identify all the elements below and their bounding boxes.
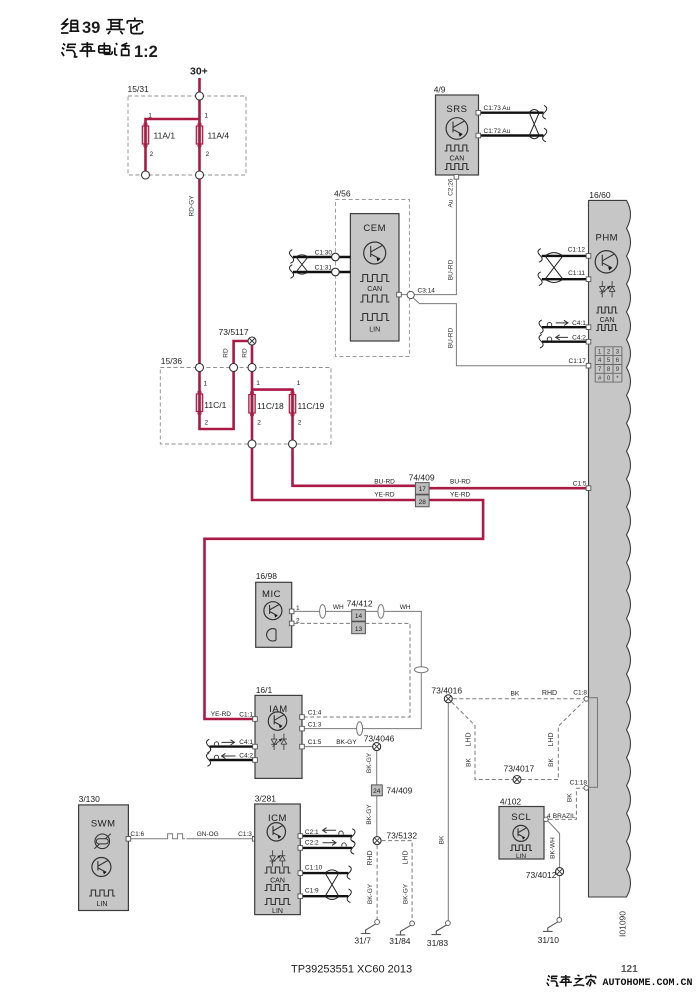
svg-text:YE-RD: YE-RD	[450, 491, 471, 498]
dashed wire RHD BK-GY to ground 31/7	[376, 845, 378, 920]
svg-text:2: 2	[296, 618, 300, 625]
PHM LIN wires C4:1 / C4:2	[542, 327, 589, 342]
svg-text:C1:8: C1:8	[573, 689, 587, 696]
splice 73/4017	[513, 776, 521, 784]
svg-text:2: 2	[206, 151, 210, 158]
svg-text:17: 17	[419, 486, 427, 493]
wire branch through fuse 11C/19 to connector 74/409 pin 17 (BU-RD)	[252, 390, 415, 486]
fuse box 15/31 (CEM fuse holder)	[128, 96, 246, 175]
wire BK-GY from IAM C1:5 to splice 73/4046	[304, 746, 376, 748]
svg-text:SRS: SRS	[446, 104, 467, 115]
svg-text:73/4046: 73/4046	[364, 733, 395, 743]
svg-text:2: 2	[205, 420, 209, 427]
svg-text:C2:2: C2:2	[305, 840, 319, 847]
svg-text:C4:2: C4:2	[239, 752, 253, 759]
PHM CAN wires C1:12 / C1:11	[542, 256, 589, 279]
svg-text:C1:10: C1:10	[305, 864, 323, 871]
dashed wire BK RHD from 73/4016 to PHM C1:8	[453, 698, 584, 700]
svg-text:LHD: LHD	[548, 732, 555, 746]
svg-text:LHD: LHD	[466, 732, 473, 746]
svg-text:WH: WH	[400, 604, 411, 611]
svg-text:39: 39	[82, 19, 100, 37]
svg-text:PHM: PHM	[595, 233, 618, 244]
svg-text:11C/1: 11C/1	[204, 400, 226, 410]
connector 74/409 pin 24	[371, 785, 382, 796]
svg-text:C4:1: C4:1	[239, 739, 253, 746]
svg-text:2: 2	[298, 420, 302, 427]
op-amp module IAM 16/1	[255, 695, 302, 778]
svg-text:CEM: CEM	[363, 223, 386, 234]
wire branch to fuse 11A/1	[146, 119, 200, 175]
svg-text:AUTOHOME.COM.CN: AUTOHOME.COM.CN	[603, 978, 693, 989]
connector circles 15/31	[196, 92, 204, 100]
ground 31/84	[396, 925, 411, 935]
fuse 11C/1	[196, 394, 202, 412]
svg-text:C4:1: C4:1	[572, 320, 586, 327]
ground 31/10	[543, 922, 558, 932]
title line 2: 汽车电话 1:2	[62, 42, 130, 57]
svg-text:LIN: LIN	[97, 901, 108, 908]
node C3:14 wires	[399, 294, 407, 296]
steering wheel module SWM 3/130	[79, 805, 129, 911]
node C3:14	[407, 291, 414, 298]
svg-text:16/98: 16/98	[256, 571, 278, 581]
svg-text:MIC: MIC	[262, 589, 281, 600]
op-amp module CEM	[350, 214, 399, 341]
svg-text:BK-GY: BK-GY	[403, 883, 410, 904]
svg-text:2: 2	[257, 420, 261, 427]
svg-text:31/7: 31/7	[354, 936, 371, 946]
SRS CAN bus wires C1:73 / C1:72	[481, 113, 544, 136]
svg-text:31/83: 31/83	[427, 938, 449, 948]
svg-text:30+: 30+	[190, 66, 208, 78]
svg-text:C1:31: C1:31	[315, 265, 333, 272]
svg-text:1: 1	[205, 113, 209, 120]
wire WH from 74/412 to IAM C1:3	[304, 611, 421, 728]
ICM wires C2:1 / C2:2	[300, 836, 352, 848]
svg-text:16/1: 16/1	[256, 685, 273, 695]
svg-text:C1:18: C1:18	[570, 780, 588, 787]
svg-text:11A/1: 11A/1	[154, 131, 176, 141]
svg-text:TP39253551 XC60 2013: TP39253551 XC60 2013	[291, 964, 412, 976]
splice 73/5132	[373, 837, 381, 845]
dashed shield wire from 74/412 pin13 to IAM C1:4	[304, 623, 410, 717]
connector 74/409 pins 17/28	[415, 483, 429, 495]
svg-text:SWM: SWM	[91, 819, 116, 830]
wire MIC pin1 (WH shielded) to 74/412 pin 14	[294, 610, 352, 612]
svg-text:WH: WH	[333, 604, 344, 611]
CEM outer dashed box 4/56	[335, 199, 409, 356]
svg-text:13: 13	[355, 626, 363, 633]
dashed wire LHD BK-GY to ground 31/84	[382, 841, 413, 921]
svg-text:15/36: 15/36	[161, 356, 183, 366]
microphone module MIC 16/98	[256, 582, 292, 647]
svg-text:YE-RD: YE-RD	[211, 711, 232, 718]
svg-text:15/31: 15/31	[128, 84, 150, 94]
svg-text:BK: BK	[466, 758, 473, 767]
wire from 73/4012 to ground 31/10	[559, 876, 561, 917]
SCL pin 4 BRAZIL dashed wire to PHM C1:18	[549, 788, 585, 819]
fuse 11A/4	[196, 126, 202, 144]
svg-text:74/409: 74/409	[386, 786, 412, 796]
svg-text:BK: BK	[548, 758, 555, 767]
svg-text:RHD: RHD	[367, 850, 374, 865]
ground 31/83	[432, 925, 447, 935]
fuse box 15/36	[160, 368, 331, 445]
svg-text:BU-RD: BU-RD	[374, 479, 395, 486]
svg-text:C1:72 Au: C1:72 Au	[484, 128, 511, 135]
svg-text:RD: RD	[242, 348, 249, 358]
wire BK from 73/4016 to ground 31/83	[447, 703, 449, 920]
svg-text:LIN: LIN	[369, 327, 380, 334]
svg-text:3/281: 3/281	[255, 793, 277, 803]
PHM internal link C1:8 to C1:18	[589, 698, 598, 788]
svg-text:2: 2	[150, 151, 154, 158]
svg-text:24: 24	[373, 788, 381, 795]
ICM suppressor diodes	[270, 850, 276, 866]
connector circles 15/36	[196, 364, 204, 372]
watermark 汽车之家 AUTOHOME.COM.CN	[547, 974, 596, 986]
svg-text:C2:1: C2:1	[305, 829, 319, 836]
svg-text:Au C2:26: Au C2:26	[447, 178, 454, 207]
svg-text:73/5132: 73/5132	[386, 830, 417, 840]
svg-text:31/10: 31/10	[538, 935, 560, 945]
fuse 11A/1	[142, 126, 148, 144]
svg-text:11C/18: 11C/18	[257, 401, 284, 411]
svg-text:1: 1	[296, 605, 300, 612]
svg-text:C1:1: C1:1	[239, 711, 253, 718]
svg-text:RD: RD	[223, 348, 230, 358]
wire from splice 73/5117 through fuse 11C/18 to connector 74/409 pin 28 (YE-RD)	[252, 345, 415, 500]
svg-text:BU-RD: BU-RD	[447, 259, 454, 280]
svg-text:1:2: 1:2	[134, 43, 158, 61]
fuse 11C/18	[249, 395, 255, 414]
svg-text:CAN: CAN	[450, 156, 465, 163]
svg-text:C1:5: C1:5	[308, 739, 322, 746]
svg-text:YE-RD: YE-RD	[374, 491, 395, 498]
svg-text:28: 28	[419, 499, 427, 506]
svg-text:GN-OG: GN-OG	[197, 831, 219, 838]
svg-text:C1:12: C1:12	[568, 247, 586, 254]
svg-text:74/409: 74/409	[409, 473, 435, 483]
svg-text:BK-WH: BK-WH	[549, 837, 556, 859]
splice 73/4012	[556, 868, 564, 876]
svg-text:BU-RD: BU-RD	[450, 479, 471, 486]
svg-text:11C/19: 11C/19	[298, 401, 325, 411]
svg-text:1: 1	[297, 380, 301, 387]
IAM LIN wires C4:1 / C4:2	[210, 747, 256, 760]
svg-text:RHD: RHD	[542, 690, 557, 697]
svg-text:C1:9: C1:9	[305, 887, 319, 894]
microphone symbol	[267, 629, 276, 641]
ICM CAN wires C1:10 / C1:9	[300, 873, 348, 896]
wire BK-GY from splice down through 74/409 pin 24 to splice 73/5132	[376, 751, 378, 836]
fuse 11C/19	[289, 395, 295, 414]
svg-text:RD-GY: RD-GY	[189, 195, 196, 217]
op-amp module SRS 4/9	[436, 95, 479, 175]
PHM suppressor diodes	[599, 281, 605, 297]
svg-text:4/56: 4/56	[334, 189, 351, 199]
svg-text:CAN: CAN	[367, 286, 382, 293]
svg-text:C1:5: C1:5	[573, 481, 587, 488]
svg-text:C1:11: C1:11	[568, 270, 585, 277]
wire 30+ feed down through 15/31 and 15/36 (RD / RD-GY)	[200, 78, 249, 429]
svg-text:73/4012: 73/4012	[526, 870, 557, 880]
wire BU-RD from 74/409 pin 17 to PHM C1:5	[429, 487, 586, 490]
svg-text:LIN: LIN	[516, 853, 526, 860]
svg-text:SCL: SCL	[511, 812, 531, 823]
CEM CAN wires C1:30 / C1:31	[293, 257, 350, 272]
IAM suppressor diodes	[271, 734, 277, 750]
wire SRS C2:26 down to node C3:14 (Au / BU-RD)	[414, 179, 456, 295]
svg-text:C3:14: C3:14	[418, 288, 436, 295]
steering wheel symbol	[94, 834, 111, 849]
svg-text:4/102: 4/102	[500, 796, 522, 806]
svg-text:73/4016: 73/4016	[431, 686, 462, 696]
svg-text:C1:17: C1:17	[569, 358, 587, 365]
svg-text:CAN: CAN	[270, 878, 285, 885]
svg-text:11A/4: 11A/4	[208, 131, 230, 141]
svg-text:C1:3: C1:3	[308, 722, 322, 729]
dashed wire LHD alternative via 73/4017	[452, 702, 584, 780]
connector 74/412 pins 14/13	[352, 610, 366, 621]
svg-text:BRAZIL: BRAZIL	[553, 813, 576, 820]
svg-text:31/84: 31/84	[389, 936, 411, 946]
svg-text:C1:73 Au: C1:73 Au	[484, 105, 511, 112]
wire MIC pin2 shield drain (dashed) to 74/412 pin 13	[294, 622, 352, 624]
svg-text:BK: BK	[567, 793, 574, 802]
svg-text:C1:4: C1:4	[308, 710, 322, 717]
wire BK-WH from SCL pin 4 to splice 73/4012	[547, 820, 559, 867]
wire GN-OG LIN bus from SWM C1:6 to ICM C1:3	[131, 838, 166, 840]
steering column lock SCL 4/102	[499, 807, 544, 860]
svg-text:73/4017: 73/4017	[504, 764, 535, 774]
ground 31/7	[361, 924, 376, 934]
svg-text:I01090: I01090	[618, 911, 628, 937]
svg-text:C1:30: C1:30	[315, 250, 333, 257]
svg-text:1: 1	[204, 381, 208, 388]
splice 73/4046	[373, 743, 381, 751]
svg-text:16/60: 16/60	[589, 190, 611, 200]
svg-text:LHD: LHD	[403, 850, 410, 864]
svg-text:BK: BK	[511, 691, 520, 698]
svg-text:BK-GY: BK-GY	[336, 739, 357, 746]
svg-text:BU-RD: BU-RD	[447, 327, 454, 348]
svg-text:C4:2: C4:2	[572, 335, 586, 342]
svg-text:BK-GY: BK-GY	[366, 752, 373, 773]
svg-text:BK: BK	[438, 835, 445, 844]
svg-text:LIN: LIN	[272, 908, 283, 915]
svg-text:3/130: 3/130	[79, 794, 101, 804]
svg-text:C1:3: C1:3	[238, 831, 252, 838]
svg-text:1: 1	[256, 380, 260, 387]
svg-text:BK-GY: BK-GY	[366, 804, 373, 825]
svg-text:74/412: 74/412	[347, 598, 373, 608]
splice 73/5117	[248, 337, 256, 345]
wire YE-RD from 74/409 pin 28 looping to IAM C1:1	[205, 500, 484, 719]
svg-text:CAN: CAN	[600, 317, 615, 324]
svg-text:BK-GY: BK-GY	[367, 883, 374, 904]
instrument module ICM 3/281	[255, 804, 301, 915]
svg-text:121: 121	[621, 964, 638, 975]
svg-text:C1:6: C1:6	[130, 831, 144, 838]
op-amp module PHM 16/60 (torn right edge)	[589, 200, 631, 897]
svg-text:4/9: 4/9	[434, 85, 446, 95]
title line 1: 组 39 其它	[61, 19, 79, 34]
svg-text:73/5117: 73/5117	[219, 327, 249, 337]
PHM keypad	[595, 347, 622, 382]
svg-text:14: 14	[355, 613, 363, 620]
